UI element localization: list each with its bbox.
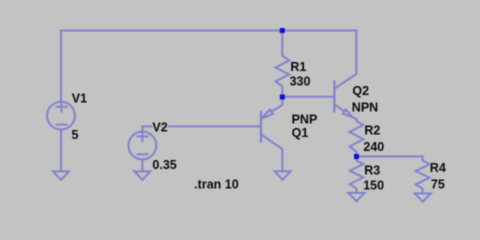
ground for R4 xyxy=(415,193,431,201)
svg-text:R1: R1 xyxy=(290,60,306,74)
wire V2 bottom stub xyxy=(141,159,143,171)
wire from R1 bottom node to Q2 base xyxy=(282,96,334,98)
ground for R3 xyxy=(348,193,364,201)
resistor R3 xyxy=(350,157,364,193)
svg-text:PNP: PNP xyxy=(292,112,318,126)
ground for V1 xyxy=(53,171,69,179)
svg-text:V1: V1 xyxy=(72,91,87,105)
resistor R2 xyxy=(350,119,364,156)
transistor Q2 NPN xyxy=(334,31,356,120)
transistor Q1 PNP xyxy=(261,97,282,171)
svg-text:5: 5 xyxy=(72,128,79,142)
ground for Q1 collector xyxy=(275,171,291,179)
resistor R4 xyxy=(416,156,430,193)
wire V1 bottom lead xyxy=(60,130,62,172)
svg-text:330: 330 xyxy=(290,74,311,88)
wire V2 top stub to base wire xyxy=(142,126,261,131)
voltage source V2 xyxy=(129,132,157,160)
junction node at R2/R3/R4 xyxy=(354,154,359,159)
svg-text:NPN: NPN xyxy=(352,100,378,114)
svg-text:.tran 10: .tran 10 xyxy=(194,177,239,191)
svg-text:Q1: Q1 xyxy=(292,126,309,140)
junction node at R1 bottom / Q1 emitter / Q2 base xyxy=(280,95,285,100)
ground for V2 xyxy=(134,171,150,179)
junction node at R1 top / rail xyxy=(280,28,285,33)
svg-text:R3: R3 xyxy=(364,163,380,177)
svg-text:Q2: Q2 xyxy=(352,84,369,98)
wire from R2/R3 node to R4 xyxy=(357,155,423,157)
svg-text:240: 240 xyxy=(363,140,384,154)
svg-text:0.35: 0.35 xyxy=(152,158,176,172)
resistor R1 xyxy=(276,31,290,97)
voltage source V1 xyxy=(47,102,75,130)
svg-text:150: 150 xyxy=(363,178,384,192)
svg-text:V2: V2 xyxy=(152,120,167,134)
svg-text:R2: R2 xyxy=(364,123,380,137)
svg-text:75: 75 xyxy=(431,178,445,192)
wire V1 top lead xyxy=(60,31,62,102)
svg-text:R4: R4 xyxy=(430,161,446,175)
wire top rail from V1 to Q2 collector xyxy=(61,30,356,32)
